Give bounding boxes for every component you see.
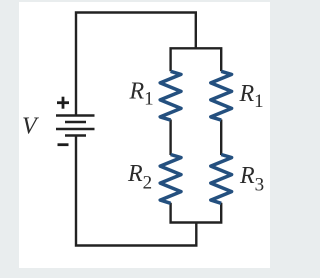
svg-text:R1: R1: [239, 81, 264, 112]
svg-text:R1: R1: [129, 79, 154, 110]
wire between R1(left) and R2: [169, 120, 171, 156]
wire bottom rail of parallel branches: [171, 203, 222, 223]
battery plus sign: [57, 97, 69, 109]
white figure panel: [19, 2, 270, 268]
resistor R1 left branch: [160, 71, 181, 120]
svg-text:R2: R2: [127, 161, 152, 194]
resistor R2: [160, 155, 181, 204]
resistor R1 right branch: [211, 71, 232, 120]
battery V: [56, 116, 95, 136]
svg-text:R3: R3: [239, 163, 264, 196]
svg-text:V: V: [22, 114, 39, 140]
battery minus sign: [58, 143, 69, 146]
resistor R3: [211, 155, 232, 204]
wire top: battery+ up and across to center stem: [76, 13, 196, 116]
wire top rail of parallel branches: [171, 48, 222, 71]
wire bottom: center stem down and back to battery-: [76, 137, 196, 246]
wire between R1(right) and R3: [220, 120, 222, 156]
